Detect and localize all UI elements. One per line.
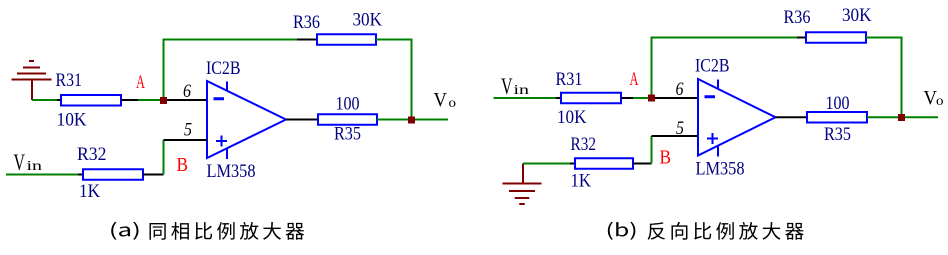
svg-text:1K: 1K: [79, 181, 100, 202]
svg-text:IC2B: IC2B: [206, 58, 241, 79]
svg-text:10K: 10K: [557, 107, 587, 128]
svg-text:6: 6: [676, 79, 684, 100]
svg-text:B: B: [177, 154, 189, 176]
svg-text:o: o: [936, 94, 944, 109]
svg-text:R36: R36: [293, 12, 320, 33]
svg-text:B: B: [660, 147, 672, 169]
svg-text:R32: R32: [77, 144, 107, 165]
svg-text:V: V: [14, 150, 26, 176]
svg-text:R32: R32: [571, 134, 597, 155]
svg-text:R31: R31: [556, 69, 583, 90]
svg-text:LM358: LM358: [207, 161, 256, 182]
svg-text:A: A: [136, 73, 145, 93]
svg-text:5: 5: [184, 120, 192, 141]
svg-text:R36: R36: [784, 7, 811, 28]
svg-text:IC2B: IC2B: [695, 56, 730, 77]
svg-text:LM358: LM358: [696, 159, 745, 180]
svg-text:R31: R31: [56, 70, 83, 91]
svg-text:in: in: [514, 83, 530, 98]
svg-text:5: 5: [676, 118, 684, 139]
svg-text:A: A: [630, 70, 639, 90]
svg-text:100: 100: [826, 93, 850, 114]
svg-text:100: 100: [336, 94, 360, 115]
svg-text:6: 6: [183, 81, 191, 102]
svg-text:10K: 10K: [57, 110, 87, 131]
svg-text:30K: 30K: [353, 10, 383, 31]
svg-text:o: o: [449, 96, 457, 111]
svg-text:1K: 1K: [571, 171, 592, 192]
svg-text:R35: R35: [334, 124, 361, 145]
svg-text:V: V: [434, 89, 448, 111]
svg-text:V: V: [501, 74, 513, 100]
svg-text:in: in: [27, 159, 43, 174]
svg-text:R35: R35: [824, 124, 851, 145]
svg-text:30K: 30K: [842, 5, 872, 26]
